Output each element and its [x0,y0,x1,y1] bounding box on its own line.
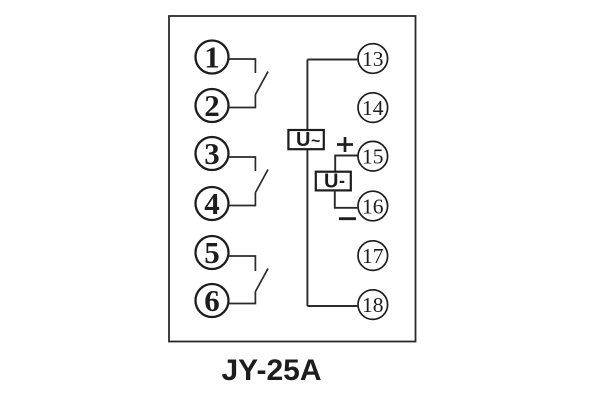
terminal 1 [196,39,229,74]
svg-text:13: 13 [362,47,384,71]
contact switch K2 between 3 and 4 [229,157,269,206]
svg-text:U: U [296,129,310,151]
terminal 18 [358,290,388,320]
svg-text:-: - [339,171,345,191]
svg-text:15: 15 [362,145,384,169]
svg-text:5: 5 [204,235,220,270]
svg-text:1: 1 [204,39,220,74]
terminal 6 [196,283,229,318]
svg-text:14: 14 [362,96,384,120]
contact switch K1 between 1 and 2 [229,59,269,108]
svg-text:3: 3 [204,136,220,171]
svg-text:JY-25A: JY-25A [221,354,321,387]
terminal 2 [196,88,229,123]
wire from 5 [229,256,256,271]
contact switch K3 between 5 and 6 [229,256,269,304]
terminal 16 [358,191,388,221]
terminal 14 [358,93,388,123]
wire from 3 [229,157,256,171]
svg-text:17: 17 [362,244,384,268]
svg-text:2: 2 [204,88,220,123]
svg-text:4: 4 [204,186,220,221]
svg-text:~: ~ [311,133,320,150]
wire from 15 to U- box [335,156,357,172]
coil box U~ [288,129,323,151]
coil box U- [316,171,351,193]
svg-text:U: U [324,171,338,193]
outer case rectangle [169,16,416,342]
wire to terminal 13 [307,59,357,61]
minus sign [339,217,356,220]
plus sign [337,137,353,152]
wire from 2 [229,95,256,108]
terminal 17 [358,241,388,271]
switch blade [255,170,268,194]
terminal 13 [358,44,388,74]
terminal 4 [196,186,229,221]
wire from U- box to 16 [335,190,358,207]
wire from 4 [229,193,256,206]
svg-text:16: 16 [362,194,384,218]
svg-text:6: 6 [204,283,220,318]
terminal 15 [358,141,388,171]
switch blade [255,72,268,96]
terminal 5 [196,235,229,270]
svg-text:18: 18 [362,293,384,317]
switch blade [255,269,268,293]
wire from 6 [229,292,256,304]
terminal 3 [196,136,229,171]
wire to terminal 18 [307,305,357,307]
wire from 1 [229,59,256,73]
vertical bus wire from 13 to 18 [306,60,308,307]
